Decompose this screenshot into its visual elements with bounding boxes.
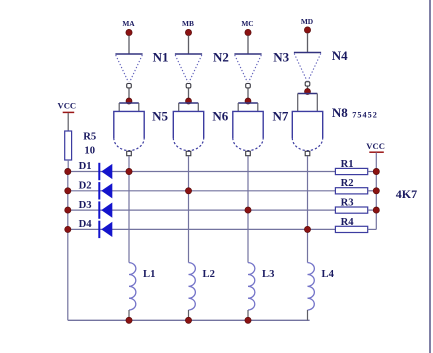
svg-text:MC: MC — [241, 19, 253, 28]
junction dot right rail row 3 — [373, 207, 379, 213]
wire R3 to VCC rail — [368, 209, 377, 211]
inductor L3 (motor winding) — [248, 263, 274, 310]
wire L1 to bottom rail — [128, 310, 130, 320]
junction node column 2 / row 2 — [185, 188, 191, 194]
wire row 3 (phase 3 horizontal net) — [68, 209, 336, 211]
diode D1 — [79, 161, 113, 180]
inverter N2 — [175, 54, 202, 88]
svg-text:MA: MA — [122, 19, 135, 28]
junction dot left rail row 2 — [65, 188, 71, 194]
wire N6 output to row 2 and coil L2 — [188, 156, 190, 263]
svg-text:75452: 75452 — [352, 111, 378, 120]
wire L4 to bottom rail — [307, 310, 309, 320]
resistor R1 — [335, 159, 367, 175]
diode D3 — [79, 200, 113, 219]
svg-text:D3: D3 — [79, 200, 92, 211]
wire input bracket of N5 (both gate inputs tied) — [119, 103, 139, 111]
svg-text:L3: L3 — [262, 269, 274, 280]
wire MC to N3 input — [247, 36, 249, 55]
svg-text:MB: MB — [182, 19, 194, 28]
svg-text:N1: N1 — [153, 50, 169, 65]
svg-text:L4: L4 — [322, 269, 335, 280]
wire MD to N4 input — [307, 33, 309, 53]
svg-text:N2: N2 — [213, 50, 229, 65]
node MA (input terminal) — [122, 19, 135, 36]
inductor L4 (motor winding) — [308, 263, 335, 310]
wire input bracket of N7 (both gate inputs tied) — [238, 103, 258, 111]
wire right VCC rail — [375, 153, 377, 230]
wire L2 to bottom rail — [188, 310, 190, 320]
junction node column 1 / row 1 — [126, 168, 132, 174]
node MC (input terminal) — [241, 19, 253, 36]
wire bottom rail — [68, 319, 310, 321]
nand gate N5 (75452 driver) — [114, 111, 144, 155]
wire N2 output to N6 input — [188, 88, 190, 101]
svg-text:4K7: 4K7 — [396, 187, 417, 201]
wire R4 to VCC rail — [368, 228, 377, 230]
junction node column 4 / row 4 — [304, 226, 310, 232]
resistor R5 value 10 — [65, 131, 96, 160]
wire input bracket of N6 (both gate inputs tied) — [179, 103, 199, 111]
junction dot at N7 inputs — [245, 98, 251, 104]
wire N3 output to N7 input — [247, 88, 249, 101]
inverter N3 — [234, 54, 261, 88]
node MB (input terminal) — [182, 19, 194, 36]
svg-text:D2: D2 — [79, 181, 92, 192]
svg-text:N3: N3 — [273, 50, 289, 65]
svg-text:N5: N5 — [152, 109, 168, 124]
wire N7 output to row 3 and coil L3 — [247, 156, 249, 263]
wire N4 output to N8 input — [307, 87, 309, 92]
svg-text:R3: R3 — [341, 198, 354, 209]
power VCC (left) — [57, 101, 76, 113]
wire row 1 (phase 1 horizontal net) — [68, 171, 336, 173]
nand gate N8 (75452 driver) — [292, 111, 322, 155]
diode D2 — [79, 181, 113, 200]
wire N8 output to row 4 and coil L4 — [307, 156, 309, 263]
node MD (input terminal) — [301, 17, 313, 33]
junction dot L2 / bottom rail — [185, 317, 191, 323]
junction dot left rail row 1 — [65, 168, 71, 174]
svg-text:MD: MD — [301, 17, 313, 26]
diode D4 — [79, 219, 113, 238]
nand gate N7 (75452 driver) — [233, 111, 263, 155]
wire input bracket of N8 (both gate inputs tied) — [298, 94, 318, 112]
junction dot at N8 inputs — [305, 89, 311, 95]
power VCC (right) — [366, 141, 385, 152]
wire left rail — [67, 172, 69, 321]
inductor L1 (motor winding) — [129, 263, 155, 310]
svg-text:D4: D4 — [79, 219, 93, 230]
svg-text:R5: R5 — [83, 132, 96, 143]
wire row 4 (phase 4 horizontal net) — [68, 228, 336, 230]
wire VCC to R5 — [67, 113, 69, 131]
wire R2 to VCC rail — [368, 190, 377, 192]
svg-text:N6: N6 — [212, 109, 228, 124]
junction dot L3 / bottom rail — [245, 317, 251, 323]
svg-text:VCC: VCC — [366, 141, 385, 151]
svg-text:L1: L1 — [143, 269, 155, 280]
junction dot at N5 inputs — [126, 98, 132, 104]
junction node column 3 / row 3 — [245, 207, 251, 213]
svg-text:L2: L2 — [203, 269, 215, 280]
wire R1 to VCC rail — [368, 171, 377, 173]
wire N5 output to row 1 and coil L1 — [128, 156, 130, 263]
junction dot at N6 inputs — [186, 98, 192, 104]
inverter N1 — [115, 54, 142, 88]
sheet border (right frame line) — [429, 0, 431, 353]
junction dot right rail row 2 — [373, 188, 379, 194]
wire R5 to node — [67, 160, 69, 172]
inverter N4 — [294, 53, 321, 87]
junction dot left rail row 3 — [65, 207, 71, 213]
wire N1 output to N5 input — [128, 88, 130, 101]
wire row 2 (phase 2 horizontal net) — [68, 190, 336, 192]
junction dot right rail row 1 — [373, 168, 379, 174]
svg-text:N8: N8 — [332, 105, 348, 120]
junction dot L1 / bottom rail — [126, 317, 132, 323]
inductor L2 (motor winding) — [189, 263, 215, 310]
svg-text:R1: R1 — [341, 159, 354, 170]
nand gate N6 (75452 driver) — [173, 111, 203, 155]
resistor R3 — [335, 198, 367, 214]
svg-text:10: 10 — [84, 146, 95, 157]
svg-text:R4: R4 — [341, 217, 355, 228]
resistor R2 — [335, 178, 367, 194]
svg-text:R2: R2 — [341, 178, 354, 189]
junction dot left rail row 4 — [65, 226, 71, 232]
resistor R4 — [335, 217, 367, 233]
wire L3 to bottom rail — [247, 310, 249, 320]
wire MB to N2 input — [188, 36, 190, 55]
svg-text:N7: N7 — [273, 109, 289, 124]
svg-text:D1: D1 — [79, 161, 92, 172]
svg-text:N4: N4 — [332, 48, 348, 63]
svg-text:VCC: VCC — [57, 101, 76, 111]
wire MA to N1 input — [128, 36, 130, 55]
